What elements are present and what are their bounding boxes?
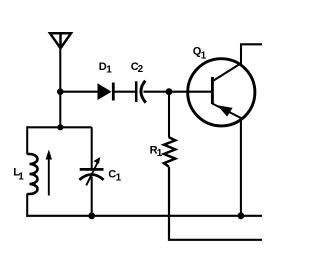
svg-text:1: 1 bbox=[106, 65, 112, 76]
svg-text:1: 1 bbox=[157, 148, 163, 159]
svg-text:1: 1 bbox=[116, 173, 122, 184]
svg-text:1: 1 bbox=[18, 171, 24, 182]
svg-text:1: 1 bbox=[201, 50, 207, 61]
svg-text:2: 2 bbox=[138, 64, 144, 75]
